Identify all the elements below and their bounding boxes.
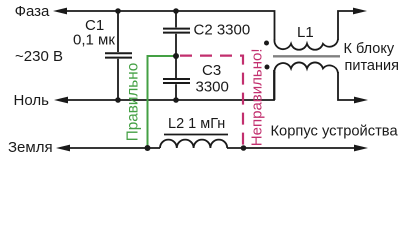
svg-text:0,1 мк: 0,1 мк <box>73 32 115 49</box>
svg-text:Ноль: Ноль <box>14 92 50 109</box>
wire: earth rail (Земля) <box>69 147 160 149</box>
L1 primary winding <box>274 39 338 49</box>
wire: neutral rail (Ноль) <box>67 70 274 100</box>
junction: neutral/C1 <box>115 97 121 103</box>
svg-text:Фаза: Фаза <box>15 3 50 20</box>
annotation: incorrect ground path (magenta dashed) <box>180 56 243 148</box>
arrow: earth input <box>56 145 70 152</box>
svg-text:L1: L1 <box>297 24 314 41</box>
junction: earth/green path <box>145 145 151 151</box>
arrow: output lower <box>354 97 368 104</box>
arrow: neutral input <box>54 97 68 104</box>
svg-text:питания: питания <box>345 58 399 74</box>
junction: phase/C1 <box>115 8 121 14</box>
wire: earth rail to device case <box>227 147 354 149</box>
L1 phasing dot secondary <box>265 65 270 70</box>
svg-text:~230 В: ~230 В <box>15 48 63 65</box>
capacitor C1 <box>105 11 132 100</box>
L1 secondary winding <box>274 62 338 72</box>
arrow: output upper <box>353 8 367 15</box>
svg-text:К блоку: К блоку <box>344 41 395 57</box>
svg-text:Корпус устройства: Корпус устройства <box>271 124 399 140</box>
capacitor C3 <box>163 56 190 100</box>
svg-text:Правильно: Правильно <box>124 63 141 142</box>
svg-text:Неправильно!: Неправильно! <box>248 48 265 146</box>
L2 core <box>164 134 228 136</box>
L1 phasing dot primary <box>264 41 269 46</box>
svg-text:3300: 3300 <box>196 79 229 96</box>
junction node: C2-C3 midpoint <box>173 53 179 59</box>
capacitor C2 <box>163 11 190 56</box>
arrow: to device case <box>354 145 368 152</box>
junction: phase/C2 <box>173 8 179 14</box>
wire: phase rail (Фаза) <box>66 11 275 40</box>
svg-text:Земля: Земля <box>8 139 53 156</box>
wire: output lower to power unit <box>338 72 354 100</box>
wire: output upper to power unit <box>338 11 353 40</box>
inductor L1 common-mode choke <box>264 39 340 100</box>
arrow: phase input <box>53 8 67 15</box>
L1 core <box>273 55 340 57</box>
annotation: correct ground path (green) <box>148 56 177 148</box>
junction: earth/magenta path <box>241 145 247 151</box>
inductor L2 <box>160 135 228 149</box>
svg-text:C2 3300: C2 3300 <box>194 22 251 39</box>
junction: neutral/C3 <box>173 97 179 103</box>
wire: L1 secondary left lead <box>274 72 276 100</box>
svg-text:L2 1 мГн: L2 1 мГн <box>168 116 225 132</box>
svg-text:C3: C3 <box>202 62 221 79</box>
